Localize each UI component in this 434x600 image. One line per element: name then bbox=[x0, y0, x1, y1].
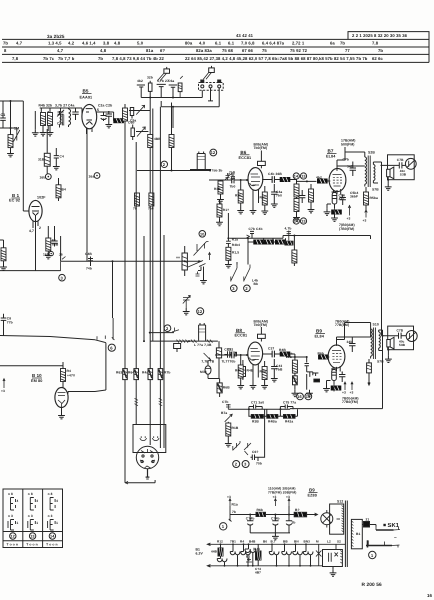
capacitor C33 bbox=[224, 347, 231, 357]
wire top bus y101 left bbox=[0, 101, 23, 211]
junction bbox=[10, 127, 12, 129]
four dropper resistors row: R63 bbox=[116, 121, 127, 380]
svg-text:R4Ba: R4Ba bbox=[268, 419, 277, 423]
svg-text:36bF: 36bF bbox=[350, 195, 358, 199]
svg-text:75: 75 bbox=[262, 48, 267, 53]
upper cluster capacitor bbox=[53, 148, 64, 170]
AM tuning gang C6 bbox=[128, 121, 145, 141]
wire into speaker2 bbox=[382, 335, 399, 337]
heater hump pair 4 bbox=[293, 544, 303, 566]
svg-text:J6: J6 bbox=[59, 253, 63, 257]
resistor R3 under B5 bbox=[40, 113, 47, 136]
svg-text:1: 1 bbox=[222, 524, 225, 529]
svg-text:R4b: R4b bbox=[39, 104, 46, 108]
svg-text:B4B: B4B bbox=[249, 539, 256, 543]
resistor on line x150 bbox=[148, 135, 162, 148]
svg-text:7,8: 7,8 bbox=[12, 56, 19, 61]
svg-text:7b: 7b bbox=[378, 48, 383, 53]
dipole cap D bbox=[169, 85, 178, 98]
svg-text:R63: R63 bbox=[116, 371, 122, 375]
svg-text:EL84: EL84 bbox=[315, 335, 325, 339]
resistor R4a black bbox=[114, 119, 124, 123]
svg-text:T o o n: T o o n bbox=[46, 542, 58, 546]
lamp X mark 1 bbox=[316, 544, 321, 566]
magic eye assembly box bbox=[133, 425, 166, 453]
svg-text:R42a: R42a bbox=[285, 419, 293, 423]
B1 anode cluster resistor bbox=[46, 226, 59, 252]
B10 anode wire bbox=[67, 392, 69, 394]
resistor left edge y247 bbox=[0, 240, 7, 270]
ht wire y514.5 bbox=[229, 506, 295, 522]
tube B8 bbox=[248, 342, 263, 365]
junction bbox=[172, 97, 174, 99]
tweeter circle 2 bbox=[406, 331, 417, 342]
trimmer C21 bbox=[57, 108, 64, 126]
resistor R77 hanging bbox=[225, 243, 239, 268]
extra long vertical x152.8 bbox=[152, 109, 154, 342]
resistor small E bbox=[178, 76, 183, 98]
resistor x151.5 y193 bbox=[148, 193, 154, 211]
svg-text:2: 2 bbox=[245, 286, 248, 291]
tube B9 output pentode bbox=[328, 345, 345, 368]
capacitor C44 on anode wire bbox=[268, 172, 282, 183]
svg-text:7B1: 7B1 bbox=[230, 539, 236, 543]
speaker element 2 bbox=[387, 337, 394, 350]
B6 top cap lead bbox=[260, 151, 262, 162]
svg-text:B5: B5 bbox=[83, 89, 89, 94]
resistor 70a black bbox=[231, 352, 237, 356]
capacitor C7b loop 1 bbox=[249, 227, 263, 239]
label C5b4 bbox=[350, 191, 359, 199]
capacitor C7b2 bbox=[347, 337, 356, 352]
svg-text:R1B: R1B bbox=[232, 426, 239, 430]
arrow on loop bbox=[126, 481, 129, 484]
tube B1 pins bbox=[23, 211, 38, 271]
svg-text:14: 14 bbox=[50, 535, 55, 539]
junction bbox=[240, 179, 242, 181]
arrow +3 ht left bbox=[227, 495, 238, 507]
vertical feed x228.4 bbox=[227, 213, 229, 241]
svg-text:70b: 70b bbox=[256, 462, 262, 466]
svg-text:16b: 16b bbox=[43, 252, 49, 256]
svg-text:R6b: R6b bbox=[257, 508, 264, 512]
junction bbox=[387, 179, 389, 181]
left wire row y270 bbox=[0, 270, 61, 272]
svg-text:32b: 32b bbox=[147, 76, 153, 80]
label 110/127 mains text bbox=[268, 487, 296, 495]
arrow +3 under C55 bbox=[347, 205, 351, 221]
svg-text:R4a: R4a bbox=[260, 370, 266, 374]
svg-text:o 3: o 3 bbox=[8, 514, 13, 518]
coil hatches x136 y398 bbox=[135, 398, 139, 405]
svg-text:77b: 77b bbox=[7, 320, 13, 324]
table line 3 bbox=[2, 53, 429, 55]
electrolytic C54 under B7 bbox=[332, 192, 345, 208]
frame vertical 2 bbox=[41, 108, 48, 131]
label B12 rectifier bbox=[308, 487, 318, 497]
circled 12 mid bbox=[197, 308, 204, 315]
svg-text:C6a: C6a bbox=[168, 79, 174, 83]
wire into speaker bbox=[381, 164, 400, 166]
speaker box 1 bbox=[388, 155, 415, 180]
circled pin 13 lower bbox=[300, 218, 306, 224]
svg-text:3b: 3b bbox=[292, 521, 296, 525]
long vertical x160 bbox=[159, 107, 161, 369]
svg-text:C?4b: C?4b bbox=[246, 517, 255, 521]
coil cell 1 bbox=[8, 492, 19, 530]
resistor B black psu2 bbox=[294, 508, 306, 517]
dipole cap A bbox=[137, 85, 145, 98]
svg-text:R6B: R6B bbox=[223, 386, 230, 390]
svg-text:7b: 7b bbox=[3, 41, 8, 46]
B5 anode drop vertical bbox=[86, 129, 88, 261]
wire fuse to winding bbox=[362, 525, 376, 527]
svg-text:67 66: 67 66 bbox=[242, 48, 254, 53]
svg-text:6,3V: 6,3V bbox=[196, 552, 204, 556]
mid chain wire y238 bbox=[230, 236, 371, 240]
series capacitor C41 bbox=[226, 237, 240, 247]
table line 2 bbox=[2, 46, 429, 48]
label B6 bbox=[239, 150, 252, 160]
svg-text:B 1: B 1 bbox=[12, 193, 20, 198]
svg-text:7b0(FM): 7b0(FM) bbox=[254, 323, 268, 327]
svg-text:4,8: 4,8 bbox=[100, 48, 107, 53]
AGC drop wire bbox=[293, 236, 295, 251]
svg-text:M34: M34 bbox=[200, 370, 207, 374]
svg-text:6?: 6? bbox=[160, 48, 165, 53]
dropper R64 bbox=[128, 142, 139, 424]
arrow mid bbox=[208, 253, 210, 261]
junction bbox=[143, 340, 145, 342]
vertical x60 drop bbox=[60, 236, 62, 261]
heater hump pair 5 bbox=[303, 544, 313, 566]
trimmer cap mid x186 bbox=[183, 296, 190, 315]
label B1 6,3V bbox=[196, 548, 204, 556]
svg-text:EZ80: EZ80 bbox=[308, 493, 317, 497]
svg-text:+3: +3 bbox=[273, 495, 277, 499]
wire secondary to speaker box bbox=[373, 162, 381, 183]
junction bbox=[294, 356, 296, 358]
junction bbox=[274, 514, 276, 516]
svg-text:3a 2b25: 3a 2b25 bbox=[47, 34, 65, 39]
svg-text:6: 6 bbox=[110, 346, 113, 351]
ground under filament box bbox=[330, 567, 337, 577]
arrow +3 left edge bbox=[1, 379, 5, 394]
contact blob end of x113 bbox=[112, 318, 115, 340]
IF coil L7 top bbox=[197, 152, 205, 168]
resistor R5b black on link bbox=[316, 176, 327, 184]
svg-text:7b: 7b bbox=[232, 510, 236, 514]
heater hump pair 1 bbox=[217, 559, 227, 566]
heater hump pair extra bbox=[241, 543, 251, 566]
circled 2 FM IF node bbox=[161, 161, 167, 167]
resistor R50 black bbox=[249, 409, 267, 423]
aerial box centre terminal stem bbox=[208, 88, 213, 101]
svg-text:77: 77 bbox=[345, 48, 350, 53]
svg-text:EL84: EL84 bbox=[326, 155, 336, 159]
circled pin 14 lower bbox=[293, 218, 299, 224]
svg-text:1: 1 bbox=[371, 553, 374, 558]
long vertical x144 bbox=[143, 236, 145, 341]
svg-text:o 8: o 8 bbox=[28, 492, 33, 496]
svg-text:SK1: SK1 bbox=[388, 522, 400, 529]
table row 3 values bbox=[12, 56, 384, 61]
junction bbox=[184, 260, 186, 262]
Toon labels bbox=[7, 542, 58, 546]
circled 13 table bbox=[29, 533, 35, 539]
wire coil L7 bottom bbox=[190, 167, 211, 170]
svg-text:3: 3 bbox=[61, 275, 64, 280]
transformer S2B core bbox=[368, 156, 370, 188]
heater dropper R4B black bbox=[211, 544, 223, 558]
svg-text:C4b 36B: C4b 36B bbox=[268, 172, 282, 176]
svg-text:81a: 81a bbox=[146, 48, 154, 53]
svg-text:77B0(FM): 77B0(FM) bbox=[342, 400, 358, 404]
junction bbox=[149, 97, 151, 99]
svg-text:+3: +3 bbox=[227, 495, 231, 499]
svg-text:7L77: 7L77 bbox=[222, 360, 230, 364]
svg-text:4,2: 4,2 bbox=[68, 41, 75, 46]
svg-text:13: 13 bbox=[30, 535, 34, 539]
dropper R66 on x160 bbox=[158, 369, 170, 448]
svg-text:+3: +3 bbox=[347, 217, 351, 221]
B8 cathode pins bbox=[253, 364, 258, 382]
svg-text:7b 7c: 7b 7c bbox=[43, 56, 55, 61]
wire antenna bus y97.5 bbox=[141, 90, 202, 97]
IF can coil with core left bbox=[60, 111, 64, 128]
svg-text:S10: S10 bbox=[373, 322, 379, 326]
junction bbox=[227, 237, 229, 239]
svg-text:C7b C4b: C7b C4b bbox=[249, 227, 263, 231]
long vertical x150 bbox=[149, 98, 151, 369]
capacitor C4a bbox=[271, 184, 283, 207]
junction bbox=[246, 354, 248, 356]
svg-text:R1a: R1a bbox=[232, 503, 238, 507]
svg-text:7b: 7b bbox=[98, 56, 103, 61]
svg-text:B7a: B7a bbox=[221, 411, 227, 415]
svg-text:2,72 1: 2,72 1 bbox=[292, 41, 305, 46]
mixer trimmer bbox=[225, 173, 231, 181]
B9 pins down bbox=[333, 366, 340, 372]
svg-text:T o o n: T o o n bbox=[26, 542, 38, 546]
svg-text:1: 1 bbox=[56, 521, 58, 525]
svg-text:S2B: S2B bbox=[368, 150, 375, 154]
svg-text:1,3 4,5: 1,3 4,5 bbox=[48, 41, 62, 46]
vertical x106 down bbox=[68, 343, 106, 392]
table row line A bbox=[3, 531, 63, 533]
svg-text:7b0: 7b0 bbox=[230, 185, 236, 189]
svg-text:4,7b: 4,7b bbox=[285, 226, 292, 230]
capacitor C6 bottom bbox=[251, 450, 262, 466]
transformer S10 core bbox=[373, 328, 375, 360]
tweeter circle 1 bbox=[405, 158, 416, 169]
capacitor C43 bbox=[271, 359, 283, 382]
switch SK1 contact 1 bbox=[376, 527, 400, 531]
svg-text:R4b4: R4b4 bbox=[232, 243, 240, 247]
capacitor C32 on grid bbox=[227, 348, 235, 364]
svg-text:6,1: 6,1 bbox=[228, 41, 235, 46]
mixer osc resistor bbox=[216, 200, 229, 226]
svg-text:77B(FM) 20B(FM): 77B(FM) 20B(FM) bbox=[268, 490, 296, 494]
psu ground bus bbox=[250, 532, 290, 534]
capacitor C4b on grid wire bbox=[228, 173, 236, 189]
svg-text:R7b: R7b bbox=[164, 371, 171, 375]
circled node 16b bbox=[43, 251, 53, 256]
svg-text:ECC81: ECC81 bbox=[235, 334, 248, 338]
vertical x112.5 mid bbox=[112, 261, 114, 318]
svg-text:C?bb 3b: C?bb 3b bbox=[209, 168, 222, 172]
svg-text:S3B: S3B bbox=[400, 172, 407, 176]
label above B7 bbox=[341, 139, 355, 147]
label B10 bbox=[31, 373, 42, 383]
circled test node 16 bbox=[40, 174, 52, 180]
capacitor C1 left edge bbox=[0, 101, 6, 128]
svg-text:R32: R32 bbox=[260, 196, 266, 200]
transformer S12 core bbox=[345, 501, 347, 568]
wire y181.4 B6-B7 link bbox=[297, 180, 317, 185]
svg-text:B1: B1 bbox=[356, 532, 360, 536]
antenna symbol FM bbox=[157, 67, 169, 81]
lamp X mark 2 bbox=[335, 544, 338, 556]
grounds under B9 bbox=[323, 381, 330, 392]
svg-text:R4b: R4b bbox=[235, 369, 242, 373]
circled pin 16 bbox=[297, 393, 304, 400]
svg-text:C7B: C7B bbox=[397, 328, 404, 332]
circled pin 15 bbox=[305, 393, 312, 400]
wire B5 to resistor net bbox=[104, 112, 126, 121]
svg-text:1: 1 bbox=[17, 521, 19, 525]
svg-text:4B7: 4B7 bbox=[255, 570, 261, 574]
tube B10 magic eye bbox=[55, 388, 68, 408]
tube B7 output pentode bbox=[329, 168, 346, 191]
table row 1 values bbox=[3, 41, 379, 46]
svg-text:6,1: 6,1 bbox=[215, 41, 222, 46]
coil hatches x160 y398 bbox=[159, 398, 163, 405]
svg-text:16: 16 bbox=[427, 593, 433, 598]
svg-text:C7b: C7b bbox=[343, 158, 350, 162]
svg-text:4: 4 bbox=[56, 499, 58, 503]
svg-text:C?4b: C?4b bbox=[271, 517, 280, 521]
svg-text:EAA91: EAA91 bbox=[80, 96, 93, 100]
resistor above B10 bbox=[61, 362, 71, 388]
svg-text:M: M bbox=[316, 539, 319, 543]
svg-text:B?: B? bbox=[295, 508, 300, 512]
svg-text:C6b: C6b bbox=[128, 121, 135, 125]
label L4b bbox=[252, 279, 258, 287]
resistor 36B2 black bbox=[331, 385, 341, 392]
svg-text:+3: +3 bbox=[286, 495, 290, 499]
resistor R56a bbox=[364, 187, 379, 210]
tube B1 triode bbox=[29, 196, 46, 222]
svg-text:15: 15 bbox=[306, 394, 311, 399]
svg-text:16a: 16a bbox=[89, 174, 95, 178]
svg-text:+3: +3 bbox=[342, 391, 346, 395]
junction bbox=[198, 260, 200, 262]
svg-text:R1?: R1? bbox=[223, 208, 229, 212]
output transformer S10 primary bbox=[371, 327, 373, 359]
junction bbox=[188, 340, 190, 342]
junction bbox=[112, 260, 114, 262]
svg-text:10: 10 bbox=[200, 232, 204, 236]
resistor R6b black bbox=[318, 352, 329, 360]
capacitor C4 bbox=[105, 111, 112, 128]
svg-text:7bB: 7bB bbox=[229, 171, 236, 175]
speaker box 2 bbox=[388, 326, 414, 350]
ground small under bbox=[45, 252, 52, 259]
transformer S10 secondary bbox=[377, 332, 384, 364]
svg-text:C2a C2b: C2a C2b bbox=[98, 104, 112, 108]
upper left cluster box resistor 31B bbox=[38, 129, 50, 174]
circled 2 mid bbox=[244, 285, 251, 292]
svg-text:4b2: 4b2 bbox=[316, 176, 322, 180]
B10 ground bbox=[58, 407, 65, 419]
switch ticks at jog bbox=[97, 336, 105, 340]
resistor R5B black bbox=[267, 409, 281, 423]
RC cluster right of B8 bbox=[307, 372, 320, 390]
oscillator line x171.5 bbox=[171, 103, 173, 171]
junction bbox=[247, 237, 249, 239]
label L7a bbox=[194, 343, 212, 347]
svg-text:31B: 31B bbox=[38, 158, 45, 162]
junction bbox=[279, 408, 281, 410]
resistor R34 black chain bbox=[264, 240, 274, 244]
resistor R52b dark bbox=[293, 373, 298, 390]
svg-text:500(FM): 500(FM) bbox=[341, 142, 355, 146]
resistor small B bbox=[148, 81, 152, 98]
svg-text:43 42 41: 43 42 41 bbox=[236, 33, 254, 38]
svg-text:S12: S12 bbox=[337, 500, 343, 504]
wire y106.7 to mixer bbox=[161, 88, 219, 107]
label B5 bbox=[80, 89, 93, 100]
svg-text:13: 13 bbox=[301, 175, 305, 179]
resistor R4B right bbox=[240, 360, 254, 380]
switch contacts bottom mid bbox=[233, 441, 251, 455]
tube B5 double diode bbox=[82, 104, 97, 128]
junction node bbox=[10, 100, 12, 102]
wire link to B7 bbox=[327, 180, 330, 182]
chain jog wires bbox=[248, 238, 286, 242]
arrow +3 ht third bbox=[286, 495, 290, 506]
mains winding box right bbox=[351, 519, 362, 548]
volume pot 7B1 bbox=[201, 353, 214, 364]
label SK1 bbox=[383, 522, 399, 529]
filament winding box bottom bbox=[323, 550, 343, 567]
svg-text:ECC81: ECC81 bbox=[239, 156, 252, 160]
heater cluster block bbox=[245, 544, 261, 574]
rectifier tube B12 circle bbox=[321, 510, 333, 528]
svg-text:75 68: 75 68 bbox=[222, 48, 234, 53]
capacitor C7B2 in box bbox=[397, 328, 407, 347]
arrow on chain bbox=[247, 235, 250, 238]
svg-text:4,0: 4,0 bbox=[199, 41, 206, 46]
junction bbox=[240, 354, 242, 356]
svg-text:102F: 102F bbox=[37, 196, 46, 200]
junction bbox=[387, 349, 389, 351]
wire to B9 bbox=[327, 356, 330, 358]
coil L2 bbox=[69, 108, 71, 127]
junction bbox=[149, 332, 151, 334]
arrow +3 under transformer bbox=[363, 210, 368, 223]
switch contact diagonals bbox=[194, 242, 209, 256]
svg-text:R3B: R3B bbox=[214, 187, 221, 191]
electrolytic C84b bbox=[271, 515, 280, 533]
circled pin 13 bbox=[300, 173, 306, 179]
ground under speaker 1 bbox=[385, 180, 392, 191]
svg-text:EC 92: EC 92 bbox=[9, 199, 20, 203]
ground under B7 left bbox=[324, 208, 331, 215]
resistor 36B black under B7 bbox=[332, 208, 342, 216]
wire bbox=[327, 204, 331, 208]
